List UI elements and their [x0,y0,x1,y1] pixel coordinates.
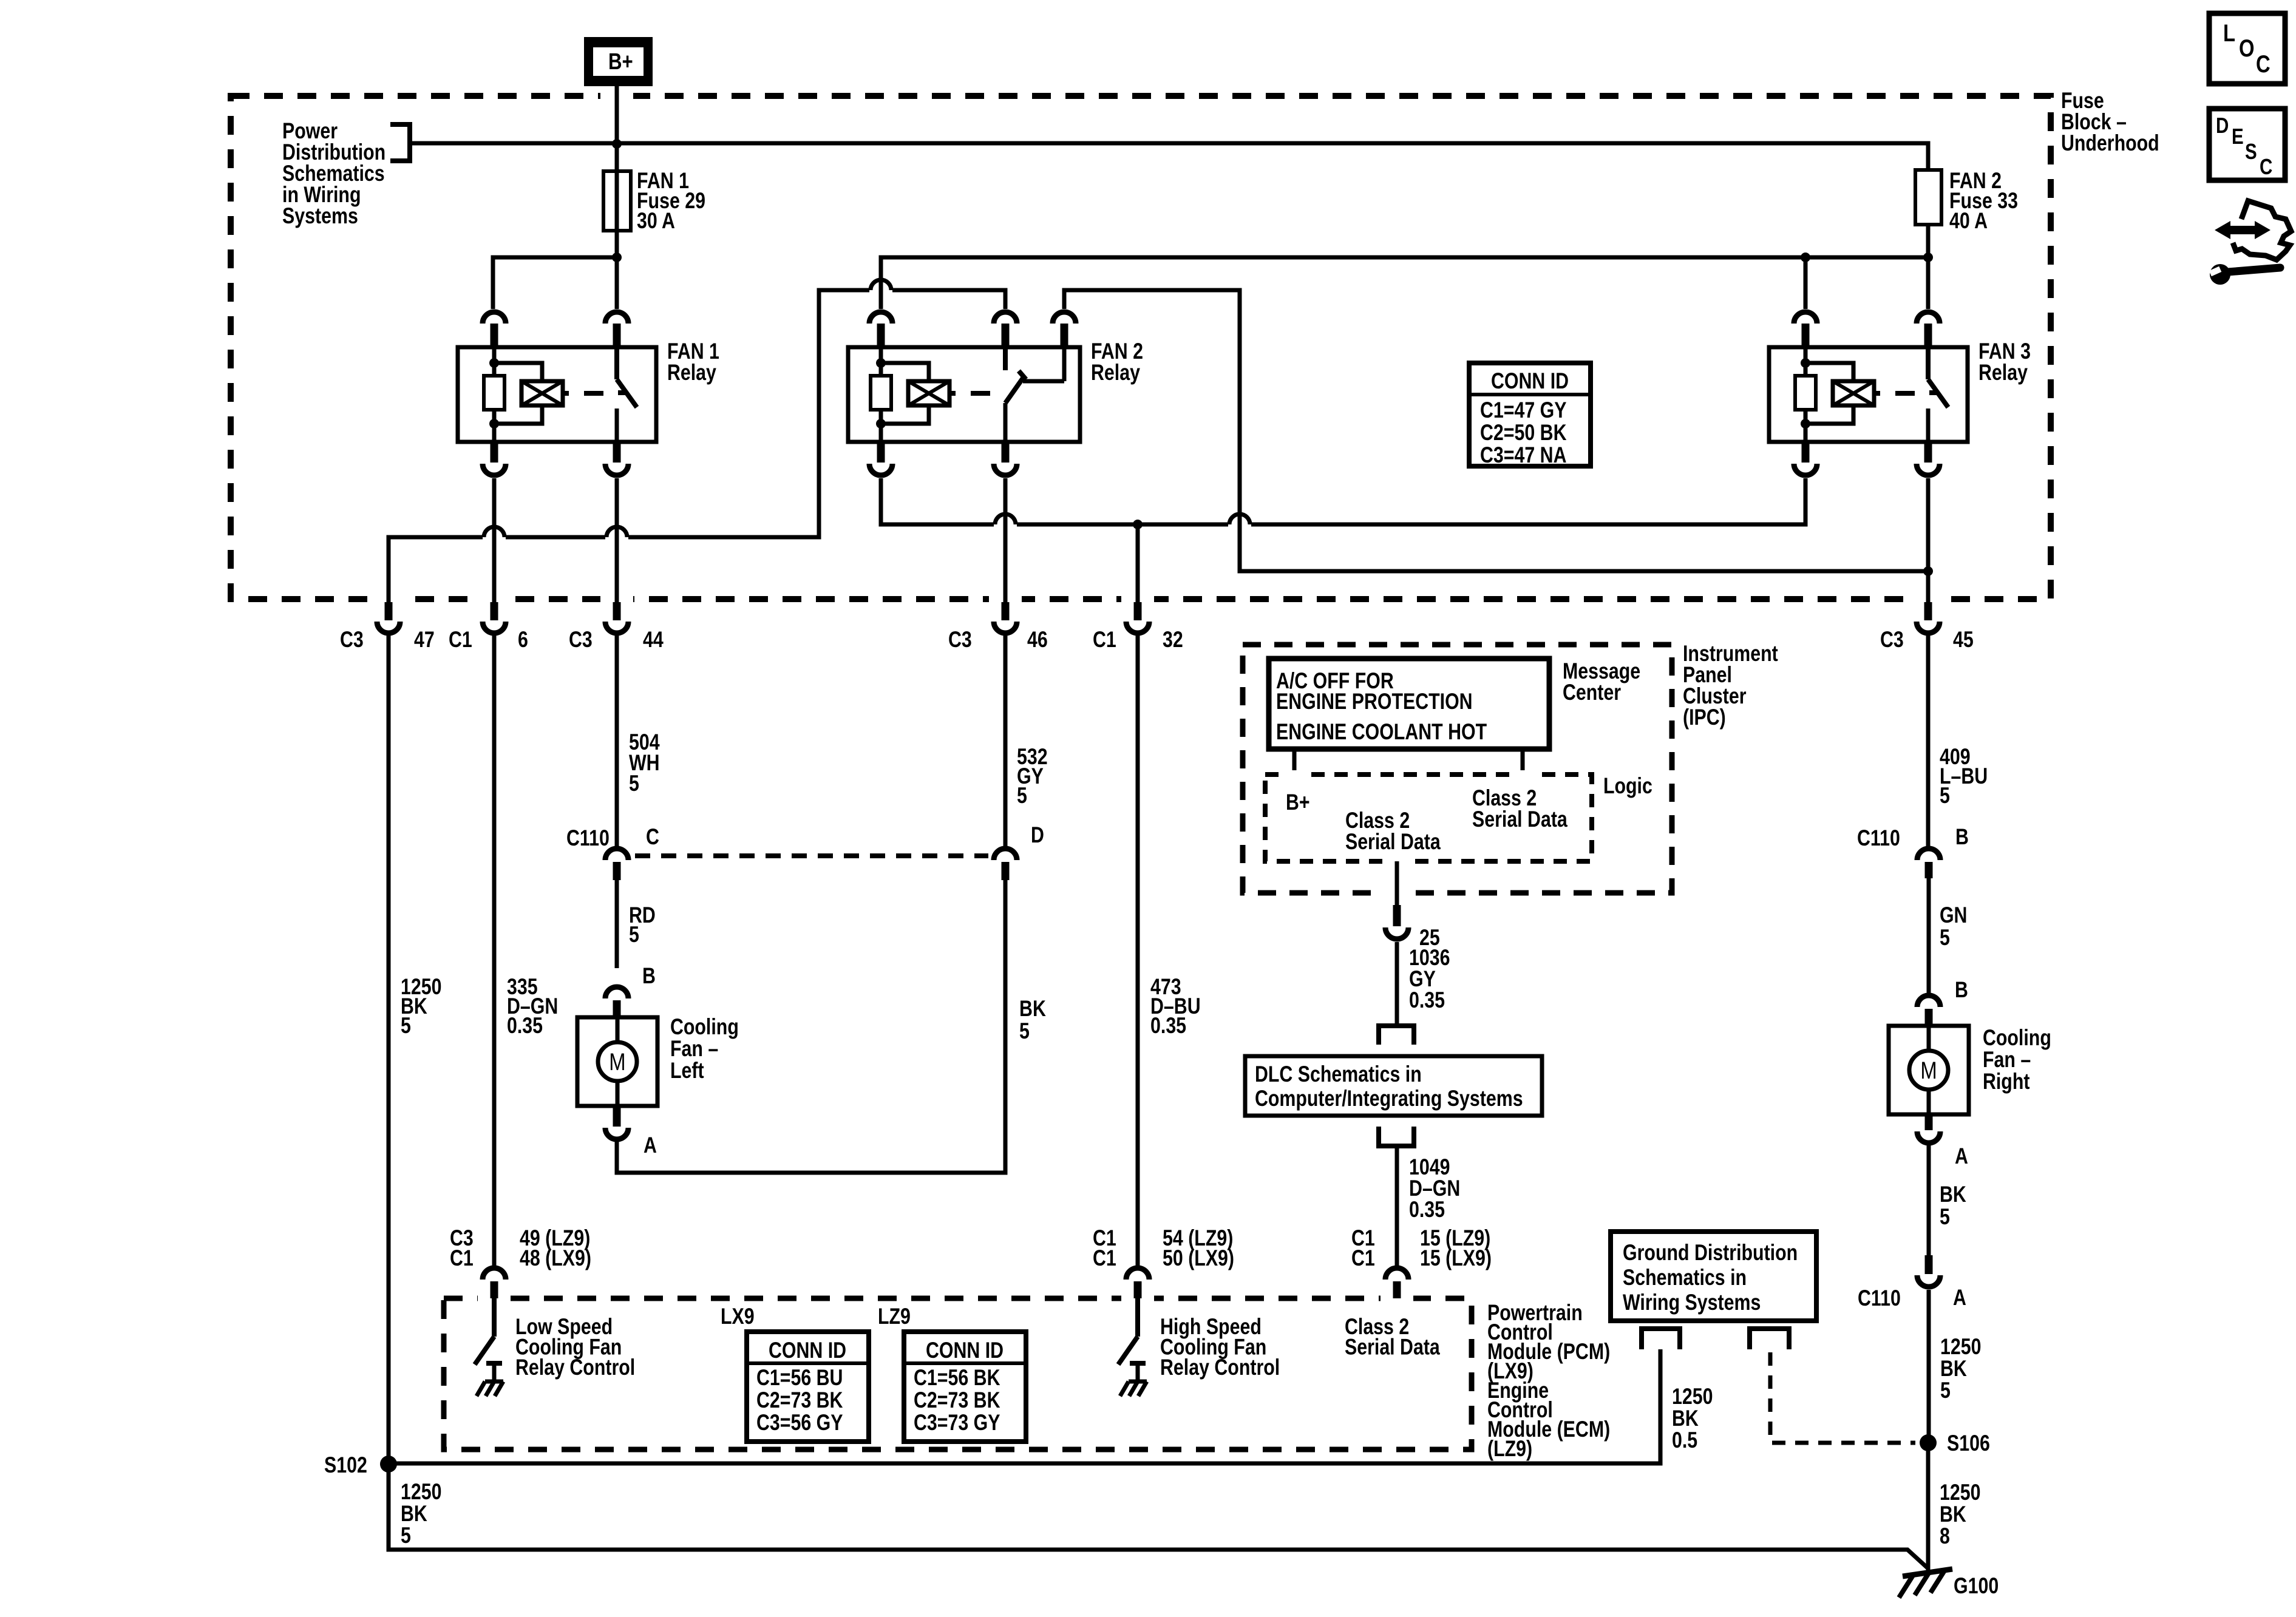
hop over C1 6 wire [483,532,506,542]
wire FAN 2 switch pin to C3 47 branch [389,290,1005,602]
dashed wire ground distribution to S106 [1770,1352,1915,1443]
svg-text:C110: C110 [1857,825,1900,851]
svg-text:M: M [609,1048,625,1076]
relay FAN 2 coil pin bottom connector [877,442,885,463]
relay FAN 3 coil parallel wiring [1805,363,1853,424]
svg-text:C1: C1 [1093,627,1116,653]
wire DLC to PCM class 2 [1395,1146,1399,1266]
wire FAN 2 switch output to C3 46 [1004,478,1008,602]
svg-text:C3: C3 [1880,627,1904,653]
service information icon arrow [2215,221,2271,239]
svg-text:5: 5 [401,1523,411,1548]
relay FAN 1 coil parallel wiring [494,363,542,424]
service information icon outline [2233,201,2291,260]
svg-text:44: 44 [643,627,664,653]
svg-text:A: A [1955,1144,1968,1169]
relay FAN 2 switch contact [1005,347,1024,403]
fuse block exit connector C3 pin 44 [613,602,621,620]
svg-text:C1=47 GY: C1=47 GY [1480,398,1567,423]
fuse block exit connector C3 pin 45 [1924,602,1932,620]
splice S102 [380,1456,397,1473]
wire FAN 3 coil feed drop [1804,257,1808,309]
relay FAN 1 switch contact [617,347,637,407]
fuse block exit connector C1 pin 6 [491,602,498,620]
wire cooling fan left A to C110 D return [617,880,1005,1173]
relay FAN 3 coil pin top connector [1794,312,1817,324]
high speed cooling fan relay control switch and ground [1118,1298,1138,1364]
relay FAN 3 switch contact [1928,347,1948,407]
cooling fan left motor box [577,1017,657,1106]
svg-text:0.35: 0.35 [1150,1013,1186,1039]
svg-text:C1=56 BU: C1=56 BU [756,1365,843,1391]
svg-text:C110: C110 [1858,1286,1901,1311]
relay FAN 2 switch feed pin top connector [1053,312,1076,324]
svg-text:0.35: 0.35 [1409,1197,1445,1222]
svg-text:A: A [1953,1285,1966,1310]
svg-text:GN: GN [1940,903,1968,928]
svg-text:Relay Control: Relay Control [1160,1355,1280,1380]
cooling fan left motor circle [598,1042,637,1081]
svg-text:D: D [2216,113,2229,137]
wire ground distribution to S102 [389,1349,1660,1463]
svg-text:C1=56 BK: C1=56 BK [914,1365,1000,1391]
splice S106 [1920,1434,1937,1451]
svg-text:C2=50 BK: C2=50 BK [1480,420,1567,446]
white gap IPC border exit [1381,887,1413,898]
relay FAN 3 coil to contact dashed link [1874,391,1915,396]
fuse block exit connector C3 pin 47 [385,602,393,620]
connector cooling fan right pin B [1917,995,1940,1007]
service information icon wrench [2228,268,2280,272]
svg-text:46: 46 [1027,627,1048,653]
relay FAN 2 switch pin bottom connector [1002,442,1010,463]
DLC top bracket [1379,1026,1414,1045]
svg-text:Relay: Relay [1978,360,2028,385]
svg-text:C2=73 BK: C2=73 BK [756,1388,843,1413]
svg-text:5: 5 [1017,783,1027,808]
svg-text:LZ9: LZ9 [878,1304,911,1329]
svg-text:15 (LX9): 15 (LX9) [1420,1246,1492,1271]
cooling fan right motor circle [1909,1051,1948,1090]
wire B+ down through fuse block border to FAN 1 fuse and relay [615,86,619,309]
svg-text:5: 5 [629,771,639,796]
svg-text:C3=47 NA: C3=47 NA [1480,442,1566,468]
svg-text:DLC Schematics in: DLC Schematics in [1255,1062,1422,1087]
svg-text:8: 8 [1940,1524,1950,1549]
fuse block exit connector C1 pin 32 [1134,602,1142,620]
wire fuse 29 output to FAN 1 relay coil [493,257,617,309]
svg-text:CONN ID: CONN ID [1491,368,1569,394]
svg-text:C: C [2260,154,2272,178]
relay FAN 3 switch pin bottom connector [1924,442,1932,463]
connector C110 B right [1917,849,1940,860]
svg-text:0.5: 0.5 [1672,1428,1697,1453]
CONN ID table LX9 [747,1332,869,1442]
relay FAN 2 box [848,347,1080,442]
relay FAN 3 coil pin bottom connector [1802,442,1810,463]
relay FAN 1 switch pin top connector [605,312,628,324]
svg-text:Right: Right [1983,1069,2029,1094]
svg-text:CONN ID: CONN ID [926,1338,1004,1363]
svg-text:5: 5 [1940,925,1950,951]
wire IPC class 2 serial data out [1395,861,1399,905]
relay FAN 2 internal junction dots [876,358,886,368]
svg-text:G100: G100 [1954,1573,1999,1599]
wire S106 to G100 [1926,1443,1931,1571]
svg-text:Computer/Integrating Systems: Computer/Integrating Systems [1255,1086,1523,1111]
hop coil bus over FAN 3 feed wire [1228,520,1251,529]
svg-text:C3=73 GY: C3=73 GY [914,1410,1000,1436]
svg-text:(LZ9): (LZ9) [1487,1436,1532,1462]
relay FAN 3 coil branch wire [1804,347,1808,442]
svg-text:C1: C1 [1093,1246,1116,1271]
relay FAN 2 coil winding box [908,381,949,405]
svg-text:Center: Center [1563,680,1621,705]
svg-text:30 A: 30 A [637,208,675,234]
svg-text:5: 5 [1019,1019,1030,1044]
wire fuse 33 output rail to FAN 2 and FAN 3 relay coils [881,225,1928,309]
svg-text:C: C [646,824,659,850]
wire FAN 3 switch output to C3 45 [1926,478,1931,602]
svg-text:Relay: Relay [667,360,716,385]
svg-text:M: M [1920,1057,1937,1084]
svg-text:S: S [2245,139,2257,163]
LOC reference box [2209,13,2285,84]
svg-text:ENGINE COOLANT HOT: ENGINE COOLANT HOT [1276,719,1487,745]
svg-text:5: 5 [629,922,639,947]
junction dot FAN 3 switch output [1923,566,1933,576]
svg-text:5: 5 [1940,1204,1950,1230]
svg-text:6: 6 [518,627,528,653]
connector C110 A right [1925,1255,1933,1274]
fuse block exit connector C3 pin 46 [1002,602,1010,620]
wire FAN 2 and FAN 3 coil low sides bus [881,478,1805,524]
wire FAN 1 switch output to C3 44 [615,478,619,602]
svg-text:A: A [644,1133,657,1158]
svg-text:C1: C1 [449,627,472,653]
svg-text:Logic: Logic [1603,773,1652,799]
PCM entry connector class 2 C1/C1 15/15 [1385,1268,1408,1280]
ground G100 [1903,1569,1952,1576]
svg-text:L: L [2223,19,2235,47]
relay FAN 1 resistor [484,376,504,410]
powertrain control module dashed box [444,1298,1472,1449]
junction dot fuse 29 output [612,253,622,262]
svg-text:C3: C3 [569,627,593,653]
connector C110 C [605,849,628,860]
svg-text:Relay Control: Relay Control [515,1355,635,1380]
svg-text:50 (LX9): 50 (LX9) [1163,1246,1234,1271]
svg-text:S106: S106 [1947,1431,1990,1456]
svg-text:5: 5 [1940,1378,1951,1403]
relay FAN 3 box [1769,347,1968,442]
hop coil bus over FAN 2 switch output [994,520,1017,529]
B+ battery feed box [584,37,653,86]
wire cooling fan right A to C110 A [1927,1145,1931,1255]
svg-text:0.35: 0.35 [507,1013,543,1039]
svg-text:ENGINE PROTECTION: ENGINE PROTECTION [1276,689,1473,714]
svg-text:BK: BK [1019,996,1046,1022]
connector cooling fan right pin A [1925,1114,1933,1130]
wire message center to logic right [1521,749,1525,775]
fuse block underhood dashed boundary box [231,96,2051,599]
junction dot B+ rail at fuse 29 wire [612,139,622,149]
svg-text:32: 32 [1163,627,1183,653]
svg-text:Relay: Relay [1091,360,1140,385]
junction dot fuse 33 bottom [1923,253,1933,262]
svg-text:Serial Data: Serial Data [1472,807,1568,832]
svg-text:CONN ID: CONN ID [769,1338,846,1363]
svg-text:D: D [1031,822,1044,848]
fuse FAN 1 Fuse 29 30A [603,171,631,231]
svg-text:47: 47 [414,627,435,653]
connector C110 D [994,849,1017,860]
svg-text:C1: C1 [1351,1246,1375,1271]
IPC exit connector pin 25 [1393,905,1401,926]
svg-text:40 A: 40 A [1949,208,1988,234]
svg-text:Systems: Systems [282,203,358,229]
svg-text:5: 5 [1940,783,1950,808]
svg-text:C3=56 GY: C3=56 GY [756,1410,843,1436]
connector cooling fan left pin A [613,1106,621,1127]
svg-text:BK: BK [1940,1182,1966,1207]
svg-text:O: O [2239,35,2255,62]
relay FAN 2 resistor [871,376,891,410]
DESC reference box [2209,109,2285,180]
svg-text:Ground Distribution: Ground Distribution [1623,1240,1798,1266]
relay FAN 3 coil winding box [1833,381,1874,405]
cooling fan right motor internal wire [1927,1026,1931,1114]
svg-text:C3: C3 [340,627,364,653]
svg-text:B+: B+ [608,49,633,75]
wire C110 A to S106 [1927,1290,1931,1443]
wire FAN 2 switch feed pin to FAN 3 switch output [1064,290,1928,571]
relay FAN 1 internal junction dots [489,358,499,368]
ground distribution schematics box [1611,1232,1816,1321]
svg-text:48 (LX9): 48 (LX9) [520,1246,591,1271]
fuse FAN 2 Fuse 33 40A [1915,170,1941,225]
wire power rail from bracket to fuse 33 [410,143,1928,170]
DLC bottom bracket [1379,1127,1414,1146]
relay FAN 2 coil branch wire [879,347,883,442]
ground distribution left bracket [1642,1329,1680,1349]
svg-text:B: B [1955,824,1969,850]
wire message center to logic left [1292,749,1297,775]
svg-text:B: B [1955,977,1968,1003]
relay FAN 1 coil winding box [521,381,563,405]
CONN ID table LZ9 [904,1332,1026,1442]
wire fuse 33 to FAN 3 relay switch [1926,257,1931,309]
svg-text:C3: C3 [948,627,972,653]
svg-text:5: 5 [401,1013,411,1039]
C110 connector dashed link [635,853,988,858]
wire C110 C to cooling fan left B [615,880,619,968]
wire C1 6 to PCM low speed input [492,635,497,1266]
wire C3 45 to C110 B [1926,635,1931,846]
wire C3 46 to C110 D [1004,635,1008,846]
PCM entry connector low speed C3/C1 49/48 [483,1268,506,1280]
svg-text:45: 45 [1953,627,1974,653]
relay FAN 2 coil parallel wiring [881,363,929,424]
connector cooling fan left pin B [605,987,628,998]
white gaps in fuse block border at wire crossings [600,90,633,101]
svg-text:C1: C1 [450,1246,474,1271]
relay FAN 1 box [458,347,656,442]
wire C1 32 to PCM high speed input [1136,635,1140,1266]
svg-text:C110: C110 [566,825,610,851]
hop over FAN 2 coil feed [869,285,892,295]
svg-text:0.35: 0.35 [1409,988,1445,1013]
hop over C3 44 wire [605,532,628,542]
relay FAN 3 resistor [1795,376,1816,410]
relay FAN 2 coil to contact dashed link [949,391,990,396]
relay FAN 1 coil pin bottom connector [491,442,498,463]
svg-text:B+: B+ [1286,790,1310,815]
relay FAN 1 coil to contact dashed link [563,391,603,396]
svg-text:Serial Data: Serial Data [1345,829,1441,855]
svg-text:Underhood: Underhood [2061,131,2159,156]
white gaps logic border [1282,770,1306,779]
relay FAN 1 coil branch wire [492,347,497,442]
svg-text:C: C [2256,50,2271,78]
relay FAN 3 switch pin top connector [1917,312,1940,324]
svg-text:B: B [642,963,656,989]
svg-text:(IPC): (IPC) [1683,705,1726,730]
cooling fan left motor internal wire [616,1017,620,1106]
relay FAN 3 internal junction dots [1801,358,1810,368]
wire S102 to G100 [389,1464,1928,1568]
wire C3 44 to C110 C [615,635,619,846]
DLC schematics reference box [1245,1056,1542,1116]
wire C3 47 to S102 [387,635,391,1464]
wire C110 B to cooling fan right [1927,878,1931,993]
svg-text:Schematics in: Schematics in [1623,1265,1747,1290]
cooling fan right motor box [1889,1026,1969,1114]
svg-text:LX9: LX9 [721,1304,755,1329]
relay FAN 2 switch pin top connector [994,312,1017,324]
power distribution schematics reference bracket [390,124,410,161]
wire coil bus to C1 32 [1136,524,1140,602]
CONN ID table for fuse block relays [1469,363,1591,466]
wire FAN 1 coil low side to C1 6 [492,478,497,602]
low speed cooling fan relay control switch and ground [475,1298,494,1364]
IPC logic dashed box [1265,775,1592,861]
message center display box [1269,659,1549,749]
instrument panel cluster dashed box [1243,645,1672,893]
svg-text:C2=73 BK: C2=73 BK [914,1388,1000,1413]
relay FAN 2 coil pin top connector [869,312,892,324]
ground distribution right bracket [1750,1329,1789,1349]
svg-text:Left: Left [670,1058,704,1083]
svg-text:Serial Data: Serial Data [1345,1335,1441,1360]
relay FAN 1 switch pin bottom connector [613,442,621,463]
relay FAN 1 coil pin top connector [483,312,506,324]
junction dot coil bus to C1 32 [1133,520,1143,529]
svg-text:S102: S102 [324,1453,367,1478]
svg-text:Wiring Systems: Wiring Systems [1623,1290,1761,1315]
svg-text:E: E [2232,124,2244,148]
PCM entry connector high speed C1/C1 54/50 [1126,1268,1149,1280]
junction dot FAN 3 coil feed [1801,253,1810,262]
white gaps PCM border at wire crossings [478,1293,511,1304]
wire pin 25 to DLC bracket [1395,942,1399,1026]
